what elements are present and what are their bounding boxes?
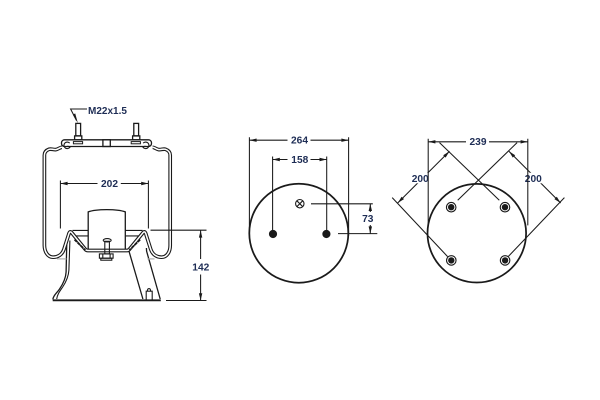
dim 239 extension lines xyxy=(428,139,528,226)
dim 200 left extension line A xyxy=(440,143,500,201)
dim 202 line xyxy=(60,183,148,185)
plate center block xyxy=(103,140,110,147)
stud bottom-right xyxy=(500,256,510,266)
top view circle xyxy=(249,184,348,283)
leader arrow xyxy=(73,113,78,123)
plate left slot xyxy=(73,142,82,144)
nut washer xyxy=(101,258,112,260)
bolt nut xyxy=(99,254,113,258)
membrane hatch left diagonal xyxy=(75,240,86,251)
dim 142 extension lines xyxy=(151,230,207,300)
piston cylinder xyxy=(88,210,125,251)
dim 264 line xyxy=(249,139,348,141)
dim 200 right extension line B xyxy=(458,143,517,201)
label M22x1.5 leader xyxy=(71,109,87,121)
dim 158 extension lines xyxy=(273,157,327,233)
stud top-left xyxy=(446,202,456,212)
bell base line xyxy=(53,299,161,301)
svg-text:264: 264 xyxy=(291,136,308,147)
stud bottom-left xyxy=(447,256,457,266)
stud top-right xyxy=(500,202,510,212)
bell skirt left edge xyxy=(53,238,67,300)
dim 202 extension lines xyxy=(60,181,148,229)
dim 73 line xyxy=(369,204,371,234)
dim 142 arrows xyxy=(199,230,202,237)
dim 264 extension lines xyxy=(249,137,348,236)
dim 200 right extension line B2 xyxy=(508,198,564,257)
mounting stud right dot xyxy=(322,230,330,238)
svg-text:202: 202 xyxy=(101,179,118,190)
dim 202 arrows xyxy=(60,182,67,185)
membrane hatch right diagonal xyxy=(129,240,140,251)
piston top plate lines xyxy=(73,230,143,236)
top plate xyxy=(62,140,152,147)
dim 200 right text xyxy=(522,173,545,184)
svg-text:200: 200 xyxy=(412,174,429,185)
svg-text:239: 239 xyxy=(470,137,487,148)
plate right curl xyxy=(143,142,149,149)
mounting stud left dot xyxy=(269,230,277,238)
dim 158 line xyxy=(273,159,327,161)
bell small pin bottom right xyxy=(146,291,152,299)
lobe shadow left xyxy=(57,258,67,260)
dim 142 line xyxy=(200,230,202,300)
svg-text:73: 73 xyxy=(362,214,374,225)
bell inner right contour xyxy=(129,250,143,299)
bell skirt inner left edge xyxy=(57,241,70,300)
svg-text:158: 158 xyxy=(291,155,308,166)
dim 239 line xyxy=(428,141,528,143)
dim 200 left extension line A2 xyxy=(392,198,447,257)
svg-text:142: 142 xyxy=(192,262,209,273)
bottom view circle xyxy=(428,184,527,283)
center bolt shaft xyxy=(105,241,110,254)
stud M22 left xyxy=(76,123,81,135)
dim 200 right line xyxy=(509,151,561,203)
dim 200 left text xyxy=(409,173,432,184)
center bolt cap xyxy=(103,239,111,242)
stud right xyxy=(134,123,139,135)
plate left curl xyxy=(64,142,70,149)
plate right slot xyxy=(131,142,140,144)
fitting extension line xyxy=(311,203,373,205)
stud extension line xyxy=(338,233,377,235)
lobe shadow right xyxy=(147,258,154,260)
bellows membrane double wall xyxy=(44,147,170,257)
bell skirt right edge xyxy=(146,248,160,299)
air fitting symbol xyxy=(296,200,304,208)
dim 200 left line xyxy=(398,151,450,203)
svg-text:M22x1.5: M22x1.5 xyxy=(88,106,127,117)
